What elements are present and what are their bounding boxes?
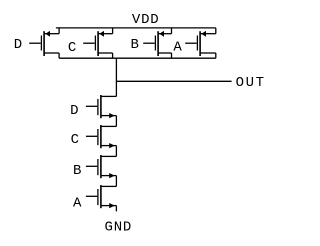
transistor Q7 (NMOS, input B) (86, 155, 117, 186)
wire: gate lead A (185, 42, 197, 44)
wire: source lead (200, 33, 216, 35)
arrow (points right) (109, 113, 115, 118)
channel bar (100, 125, 102, 148)
gate bar (154, 36, 156, 51)
wire: OUT line (116, 80, 231, 82)
wire: source step down (115, 146, 117, 157)
channel bar (43, 31, 45, 56)
transistor Q5 (NMOS, input D) (86, 95, 117, 126)
wire: drain lead (101, 155, 117, 157)
wire: drain lead (44, 52, 59, 54)
gate bar (97, 189, 99, 205)
transistor Q1 (PMOS, input D) (29, 28, 59, 58)
svg-text:C: C (71, 132, 79, 148)
svg-text:OUT: OUT (236, 75, 266, 91)
transistor Q6 (NMOS, input C) (86, 125, 117, 156)
wire: output stem from PMOS rail down to NMOS chain (115, 58, 117, 96)
VDD rail (56, 27, 216, 29)
svg-text:B: B (73, 163, 81, 179)
transistor Q3 (PMOS, input B) (143, 28, 171, 58)
wire: gate lead D (29, 42, 41, 44)
gate bar (97, 129, 99, 145)
channel bar (100, 155, 102, 178)
wire: drain lead (158, 52, 171, 54)
arrow (points left into channel) (45, 31, 50, 37)
svg-text:GND: GND (105, 219, 133, 235)
wire: source step to VDD (58, 28, 60, 34)
channel bar (157, 31, 159, 56)
gate bar (94, 36, 96, 51)
wire: source step down (115, 176, 117, 187)
svg-text:D: D (14, 37, 22, 53)
wire: gate lead B (143, 42, 155, 44)
wire: source step down (115, 116, 117, 127)
wire: drain lead (101, 185, 117, 187)
wire: source step to VDD (112, 28, 114, 34)
channel bar (199, 31, 201, 56)
arrow (points left into channel) (99, 31, 104, 37)
gate bar (196, 36, 198, 51)
wire: drain lead (101, 125, 117, 127)
arrow (points right) (109, 143, 115, 148)
output rail (PMOS drains) (59, 57, 216, 59)
gate bar (97, 99, 99, 115)
wire: drain step to rail (215, 53, 217, 58)
transistor Q4 (PMOS, input A) (185, 28, 216, 58)
wire: source lead (44, 33, 59, 35)
svg-text:D: D (70, 103, 78, 119)
wire: source lead (101, 205, 117, 207)
gate bar (97, 159, 99, 175)
svg-text:C: C (68, 40, 76, 56)
wire: drain lead (98, 52, 113, 54)
channel bar (100, 185, 102, 208)
wire: gate lead C (86, 135, 97, 137)
svg-text:VDD: VDD (132, 12, 160, 28)
wire: drain step to rail (171, 53, 173, 58)
svg-text:A: A (173, 40, 182, 56)
wire: gate lead A (86, 195, 97, 197)
gate bar (40, 36, 42, 51)
ground stub (115, 206, 117, 212)
wire: drain lead (101, 95, 117, 97)
arrow (points left into channel) (201, 31, 206, 37)
svg-text:A: A (73, 196, 82, 212)
wire: gate lead D (86, 105, 97, 107)
arrow (points right) (109, 173, 115, 178)
wire: source lead (101, 145, 117, 147)
wire: source lead (101, 115, 117, 117)
wire: gate lead B (86, 165, 97, 167)
wire: source step to VDD (171, 28, 173, 34)
wire: source step to VDD (215, 28, 217, 34)
wire: drain step to rail (58, 53, 60, 58)
arrow (points right) (109, 203, 115, 208)
wire: drain lead (200, 52, 216, 54)
channel bar (100, 95, 102, 118)
wire: source lead (158, 33, 171, 35)
wire: source lead (101, 175, 117, 177)
arrow (points left into channel) (159, 31, 164, 37)
transistor Q8 (NMOS, input A) (86, 185, 117, 211)
channel bar (97, 31, 99, 56)
wire: drain step to rail (112, 53, 114, 58)
wire: gate lead C (83, 42, 95, 44)
transistor Q2 (PMOS, input C) (83, 28, 112, 58)
svg-text:B: B (131, 37, 139, 53)
wire: source lead (98, 33, 113, 35)
